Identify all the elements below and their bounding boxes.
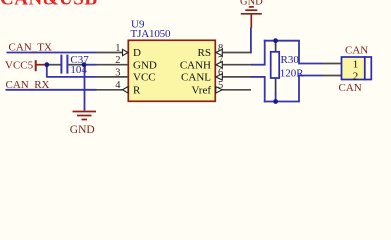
svg-text:VCC5: VCC5 <box>5 59 34 71</box>
svg-text:CANH: CANH <box>180 59 211 71</box>
svg-text:RS: RS <box>198 47 211 59</box>
svg-text:GND: GND <box>70 124 95 136</box>
svg-text:CANL: CANL <box>181 72 211 84</box>
svg-text:CAN: CAN <box>339 82 362 94</box>
svg-text:CAN_RX: CAN_RX <box>6 79 50 91</box>
svg-text:120R: 120R <box>280 68 305 80</box>
svg-text:Vref: Vref <box>192 85 212 97</box>
svg-text:D: D <box>133 47 141 59</box>
svg-text:CAN&USB: CAN&USB <box>0 0 97 9</box>
svg-text:R30: R30 <box>281 54 300 66</box>
svg-text:VCC: VCC <box>133 72 156 84</box>
svg-text:1: 1 <box>353 59 359 71</box>
svg-text:R: R <box>133 85 141 97</box>
svg-text:TJA1050: TJA1050 <box>131 28 172 40</box>
svg-text:CAN: CAN <box>345 45 368 57</box>
svg-text:GND: GND <box>133 59 157 71</box>
svg-text:2: 2 <box>353 71 359 83</box>
svg-text:CAN_TX: CAN_TX <box>9 41 52 53</box>
